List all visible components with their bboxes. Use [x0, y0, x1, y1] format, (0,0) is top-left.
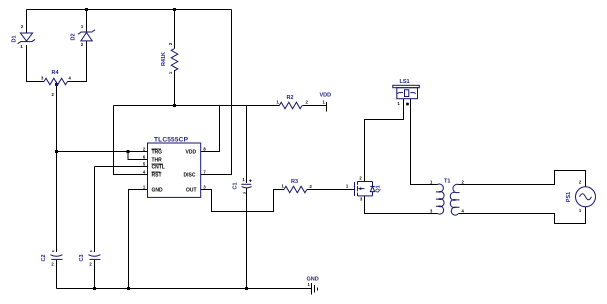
- svg-text:T1: T1: [444, 179, 450, 185]
- resistor R2: [279, 102, 302, 109]
- capacitor C1: [241, 179, 251, 188]
- svg-text:1: 1: [168, 71, 173, 74]
- svg-text:RST: RST: [152, 173, 162, 179]
- wire R2 right to VDD bar: [302, 105, 326, 107]
- svg-text:2: 2: [21, 24, 24, 29]
- resistor R3: [284, 186, 307, 193]
- svg-text:2: 2: [52, 92, 55, 97]
- svg-text:1: 1: [242, 177, 245, 182]
- speaker LS1: [393, 85, 420, 98]
- svg-text:3: 3: [360, 197, 363, 202]
- node junction dot THR tee: [127, 150, 130, 153]
- wire CNTL line: [95, 166, 148, 168]
- wire D2 anode to pot: [68, 41, 87, 82]
- svg-text:LS1: LS1: [400, 79, 410, 85]
- node junction dot C1 rail: [245, 287, 248, 290]
- svg-text:1: 1: [308, 282, 311, 287]
- wire Q1 source to T1 primary bottom: [365, 196, 438, 214]
- svg-text:2: 2: [359, 176, 362, 181]
- svg-text:1: 1: [398, 101, 401, 106]
- svg-text:TRG: TRG: [152, 150, 163, 156]
- transistor Q1 (N-MOSFET): [355, 182, 375, 197]
- wire OUT pin3 step: [201, 190, 284, 212]
- svg-text:C1: C1: [233, 182, 239, 189]
- wire D2 cathode lead: [86, 10, 88, 33]
- svg-text:1: 1: [143, 185, 146, 190]
- wire CNTL down to C3: [94, 167, 96, 253]
- svg-text:3: 3: [41, 76, 44, 81]
- svg-text:4: 4: [462, 209, 465, 214]
- svg-text:2: 2: [89, 262, 92, 267]
- svg-text:1: 1: [277, 100, 280, 105]
- wire bottom ground rail: [57, 288, 311, 290]
- svg-text:2: 2: [579, 180, 582, 185]
- capacitor C2: [50, 251, 62, 259]
- wire D1 anode lead: [26, 10, 28, 34]
- svg-text:3: 3: [430, 209, 433, 214]
- svg-text:VDD: VDD: [320, 93, 332, 99]
- svg-text:GND: GND: [152, 188, 164, 194]
- resistor R41K (R4 1K vertical): [171, 49, 178, 71]
- wire C3 bottom to rail: [94, 260, 96, 289]
- svg-text:4: 4: [69, 76, 72, 81]
- wire VDD pin8 link: [201, 106, 220, 152]
- wire DISC pin7 riser to top rail: [201, 10, 232, 175]
- svg-text:5: 5: [143, 162, 146, 167]
- svg-text:1: 1: [81, 24, 84, 29]
- svg-text:6: 6: [143, 155, 146, 160]
- wire R3 to Q1 gate: [307, 189, 355, 191]
- wire C2 bottom to ground rail: [56, 260, 58, 289]
- svg-text:VDD: VDD: [186, 150, 197, 156]
- capacitor C3: [88, 251, 100, 259]
- wire C1 bottom lead to rail: [246, 188, 248, 288]
- IC U1 TLC555CP 555 timer: [148, 143, 201, 197]
- svg-text:2: 2: [462, 180, 465, 185]
- svg-text:1: 1: [430, 180, 433, 185]
- diode D1: [18, 33, 35, 44]
- wire D1 cathode to pot: [27, 45, 45, 82]
- wire TRG line: [57, 151, 148, 153]
- svg-text:7: 7: [203, 170, 206, 175]
- svg-text:C2: C2: [41, 254, 47, 261]
- ground symbol: [312, 283, 318, 294]
- wire LS1 pin1 to Q1 drain: [365, 99, 404, 182]
- power source PS1: [576, 187, 596, 207]
- node junction dot TRG tee: [55, 150, 58, 153]
- wire T1 secondary bottom to PS1: [459, 207, 586, 224]
- svg-text:3: 3: [203, 185, 206, 190]
- wire LS1 pin2 to T1 primary top: [411, 99, 438, 185]
- wire top rail: [27, 9, 232, 11]
- wire THR tie: [128, 152, 148, 160]
- svg-text:2: 2: [51, 262, 54, 267]
- svg-text:8: 8: [203, 147, 206, 152]
- svg-text:2: 2: [306, 100, 309, 105]
- svg-text:1: 1: [282, 184, 285, 189]
- wire R41K top lead: [174, 10, 176, 49]
- svg-text:D2: D2: [71, 33, 77, 40]
- wire C1 top lead: [246, 106, 248, 184]
- wire R41K bottom lead: [174, 70, 176, 106]
- svg-text:R4: R4: [52, 70, 60, 76]
- svg-text:1: 1: [346, 184, 349, 189]
- svg-text:1: 1: [20, 44, 23, 49]
- svg-text:2: 2: [168, 42, 173, 45]
- svg-text:R41K: R41K: [161, 52, 167, 66]
- wire T1 secondary top to PS1: [459, 171, 586, 187]
- wire GND pin1 drop: [129, 190, 148, 289]
- svg-text:Q1: Q1: [376, 185, 382, 192]
- node junction dot C3 rail: [93, 287, 96, 290]
- svg-text:1: 1: [323, 100, 326, 105]
- svg-text:TLC555CP: TLC555CP: [154, 137, 189, 144]
- svg-text:R3: R3: [291, 179, 298, 185]
- svg-text:THR: THR: [152, 158, 163, 164]
- node junction dot R41K top: [173, 8, 176, 11]
- svg-text:2: 2: [310, 184, 313, 189]
- svg-text:4: 4: [143, 170, 146, 175]
- svg-text:2: 2: [143, 147, 146, 152]
- svg-text:1: 1: [579, 208, 582, 213]
- wire RST line and riser: [114, 106, 148, 175]
- transformer T1: [436, 184, 460, 215]
- diode D2: [78, 30, 95, 41]
- wire mid VDD rail: [114, 105, 280, 107]
- svg-text:C3: C3: [79, 254, 85, 261]
- svg-text:PS1: PS1: [566, 192, 572, 202]
- potentiometer R4: [44, 78, 68, 85]
- wire pot wiper down to C2: [56, 84, 58, 252]
- svg-text:DISC: DISC: [184, 173, 196, 179]
- node junction dot D2 top: [85, 8, 88, 11]
- svg-text:CNTL: CNTL: [152, 165, 165, 171]
- node junction dot R41K bottom: [173, 104, 176, 107]
- svg-text:2: 2: [81, 42, 84, 47]
- svg-text:D1: D1: [12, 35, 18, 42]
- node junction dot pot wiper: [55, 83, 58, 86]
- svg-text:OUT: OUT: [186, 188, 197, 194]
- node junction dot GND riser rail: [127, 287, 130, 290]
- power VDD symbol: [326, 102, 328, 112]
- svg-text:R2: R2: [287, 95, 294, 101]
